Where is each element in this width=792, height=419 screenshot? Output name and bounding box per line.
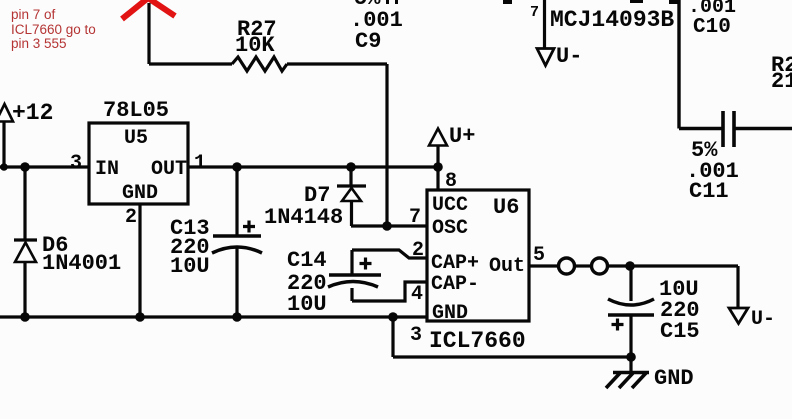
svg-text:U-: U- [751,308,775,331]
wire C10 net down to C11 [679,0,722,129]
node D6 top [20,162,30,172]
svg-text:10U: 10U [287,292,327,317]
pin 3 U6 [410,324,422,347]
wire U6 Out pin 5 [529,264,558,267]
svg-text:21: 21 [771,69,792,94]
V- power symbol top [537,44,582,69]
connector circle 1 [559,258,575,274]
diode D7 [264,167,366,230]
wire ground rail to GND symbol [393,317,631,357]
svg-text:UCC: UCC [432,194,468,217]
svg-text:10K: 10K [235,33,275,58]
pin 2 U5 [125,206,137,229]
svg-text:1N4001: 1N4001 [42,251,121,276]
node VCC junction [433,162,443,172]
wire U5 GND pin down to ground rail [138,204,141,317]
pin 8 U6 [445,170,457,193]
svg-text:U+: U+ [449,124,475,149]
svg-text:2: 2 [125,206,137,229]
pin 5 U6 [533,244,545,267]
ic U6 ICL7660 [427,190,529,354]
capacitor C9 labels (symbol cut off at top) [350,0,403,54]
svg-text:2: 2 [412,239,424,262]
svg-text:ICL7660: ICL7660 [429,328,526,354]
svg-text:C9: C9 [355,29,381,54]
svg-text:+12: +12 [12,100,53,126]
note red annotation text [11,7,96,51]
wire U5 OUT to VCC node [188,165,438,168]
svg-text:pin 7 of: pin 7 of [11,7,56,22]
V+ power symbol [429,124,475,190]
svg-text:U6: U6 [493,195,519,220]
pin 3 U5 [70,152,82,175]
svg-text:3: 3 [70,152,82,175]
pin 2 U6 [412,239,424,262]
node GND drop [388,312,398,322]
svg-text:IN: IN [95,158,119,181]
ground symbol GND [606,357,694,391]
node U5 GND bottom [135,312,145,322]
svg-text:1: 1 [194,152,206,175]
svg-text:GND: GND [122,182,158,205]
partial glyph above MCJ label [503,0,679,4]
red arrow pointer [122,0,175,19]
pin 1 U5 [194,152,206,175]
svg-text:MCJ14093B: MCJ14093B [550,7,674,33]
capacitor C11 [686,111,739,204]
svg-text:7: 7 [530,4,539,21]
svg-text:GND: GND [654,366,694,391]
svg-text:OSC: OSC [432,217,468,240]
svg-text:5: 5 [533,244,545,267]
svg-text:C14: C14 [287,248,327,273]
pin 7 U6 [409,206,421,229]
svg-text:CAP-: CAP- [431,273,479,296]
node C15 top [625,261,635,271]
wire C11 right to edge [736,127,792,130]
svg-text:CAP+: CAP+ [431,252,479,275]
node C13 top [232,162,242,172]
node +12 tap [0,163,8,171]
svg-text:Out: Out [489,255,525,278]
capacitor C10 labels (symbol cut off at top) [688,0,736,39]
V- power symbol right [729,308,775,331]
wire OSC net D7 anode to U6 pin 7 [351,224,428,227]
wire between connector circles [575,264,591,267]
node C13 bottom [232,312,242,322]
wire output to V- corner [608,266,738,307]
wire +12 rail to U5 IN [0,165,89,168]
svg-text:C15: C15 [660,319,700,344]
svg-text:U-: U- [556,44,582,69]
capacitor C15 [608,266,700,357]
resistor R27 [232,17,287,71]
svg-text:8: 8 [445,170,457,193]
ic MCJ14093B pin 7 stub [530,0,674,49]
node OSC junction [382,221,392,231]
capacitor C14 [287,248,381,317]
svg-text:4: 4 [411,283,423,306]
connector circle 2 [592,258,608,274]
resistor R2x labels cut at edge [771,53,792,94]
pin 4 U6 [411,283,423,306]
capacitor C13 [170,167,262,317]
wire from arrow node down and right to R27 [149,3,232,64]
ground rail [0,315,427,318]
svg-text:U5: U5 [124,127,148,150]
svg-text:pin 3 555: pin 3 555 [11,36,67,51]
svg-text:1N4148: 1N4148 [264,205,343,230]
svg-text:OUT: OUT [151,158,187,181]
node GND junction [626,352,636,362]
svg-text:GND: GND [432,302,468,325]
wire CAP- net C14 bottom to U6 pin 4 [352,282,428,301]
diode D6 [14,167,121,317]
wire R27 to C9 corner, down to OSC node [287,64,387,226]
svg-text:7: 7 [409,206,421,229]
svg-text:3: 3 [410,324,422,347]
node D6 bottom [20,312,30,322]
svg-text:ICL7660 go to: ICL7660 go to [11,22,96,37]
+12 power symbol [0,100,53,167]
voltage regulator U5 [89,98,188,205]
svg-text:10U: 10U [170,254,210,279]
node D7 top [346,162,356,172]
svg-text:78L05: 78L05 [103,98,169,123]
svg-text:C11: C11 [689,179,729,204]
svg-text:C10: C10 [693,16,731,39]
wire CAP+ net C14 top to U6 pin 2 [352,250,428,258]
